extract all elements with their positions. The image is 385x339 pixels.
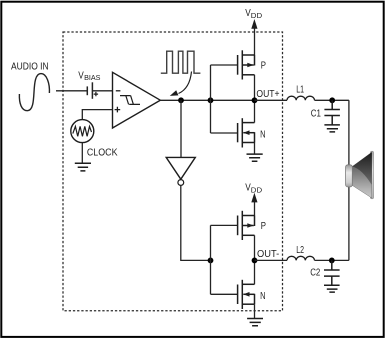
wire L2 to node C2	[315, 259, 349, 261]
wire inverter to lower bridge	[181, 185, 211, 260]
svg-text:OUT+: OUT+	[256, 89, 279, 100]
capacitor C1	[324, 100, 340, 125]
wire L1 to node C1	[315, 99, 349, 101]
clock triangle wave	[73, 126, 92, 136]
speaker feed wire right	[348, 100, 350, 260]
capacitor C2	[324, 260, 340, 285]
wire bias to comparator	[92, 90, 112, 92]
transistor N lower	[238, 280, 255, 309]
svg-text:P: P	[261, 221, 266, 232]
curved annotation arrow	[179, 72, 192, 94]
PWM waveform glyph	[161, 51, 201, 73]
svg-text:P: P	[261, 60, 266, 71]
svg-text:C2: C2	[310, 267, 320, 278]
inverter U2	[166, 157, 195, 179]
minus input mark	[116, 90, 121, 92]
wire P source to OUT-	[254, 235, 256, 260]
clock ground wire	[81, 143, 83, 164]
transistor P lower	[238, 211, 255, 240]
svg-text:N: N	[260, 291, 265, 302]
wire node A to inverter	[180, 100, 182, 157]
clock wire to plus input	[82, 110, 112, 120]
svg-text:L1: L1	[296, 85, 304, 96]
svg-text:DD: DD	[251, 185, 262, 194]
comparator U1	[113, 72, 161, 128]
battery VBIAS	[86, 86, 88, 95]
svg-text:OUT-: OUT-	[257, 249, 279, 260]
wire OUT+ to N drain	[254, 100, 256, 122]
wire N source to ground lower	[254, 304, 256, 318]
svg-text:CLOCK: CLOCK	[87, 147, 118, 158]
node D junction	[208, 258, 214, 264]
plus input mark	[115, 107, 121, 113]
wire OUT- to N drain	[254, 260, 256, 284]
comparator output wire	[160, 99, 254, 101]
hysteresis symbol	[120, 96, 140, 105]
inductor L1	[287, 96, 315, 100]
node C2 junction	[329, 258, 335, 264]
ground lower N	[247, 319, 263, 326]
wire N source to ground	[254, 143, 256, 155]
audio sine symbol	[19, 74, 49, 111]
svg-text:L2: L2	[296, 245, 304, 256]
transistor N upper	[238, 118, 255, 147]
wire OUT- to L2	[255, 259, 288, 261]
clock oscillator circle	[71, 120, 94, 143]
svg-text:C1: C1	[311, 108, 321, 119]
svg-text:AUDIO IN: AUDIO IN	[11, 62, 49, 73]
node C1 junction	[329, 97, 335, 103]
transistor P upper	[238, 50, 255, 79]
wire audio to bias cap	[56, 90, 87, 92]
node B junction	[208, 97, 214, 103]
clock ground	[75, 163, 91, 171]
svg-text:BIAS: BIAS	[84, 73, 101, 82]
OUT+ node junction	[252, 97, 258, 103]
ground C2	[324, 285, 340, 292]
upper gate riser wire	[211, 65, 238, 133]
speaker	[346, 151, 374, 199]
svg-text:N: N	[260, 130, 265, 141]
inductor L2	[287, 256, 315, 260]
ground C1	[324, 125, 340, 132]
VDD arrow bottom	[254, 200, 256, 216]
wire P source to OUT+	[254, 75, 256, 101]
dashed boundary box	[63, 32, 283, 311]
ground upper N	[247, 154, 263, 161]
OUT- node junction	[252, 258, 258, 264]
battery plus mark	[94, 92, 98, 96]
wire OUT+ to L1	[255, 99, 288, 101]
VDD arrow top	[254, 27, 256, 56]
lower gate riser wire	[211, 225, 238, 294]
svg-text:DD: DD	[251, 11, 262, 20]
node A junction	[178, 97, 184, 103]
